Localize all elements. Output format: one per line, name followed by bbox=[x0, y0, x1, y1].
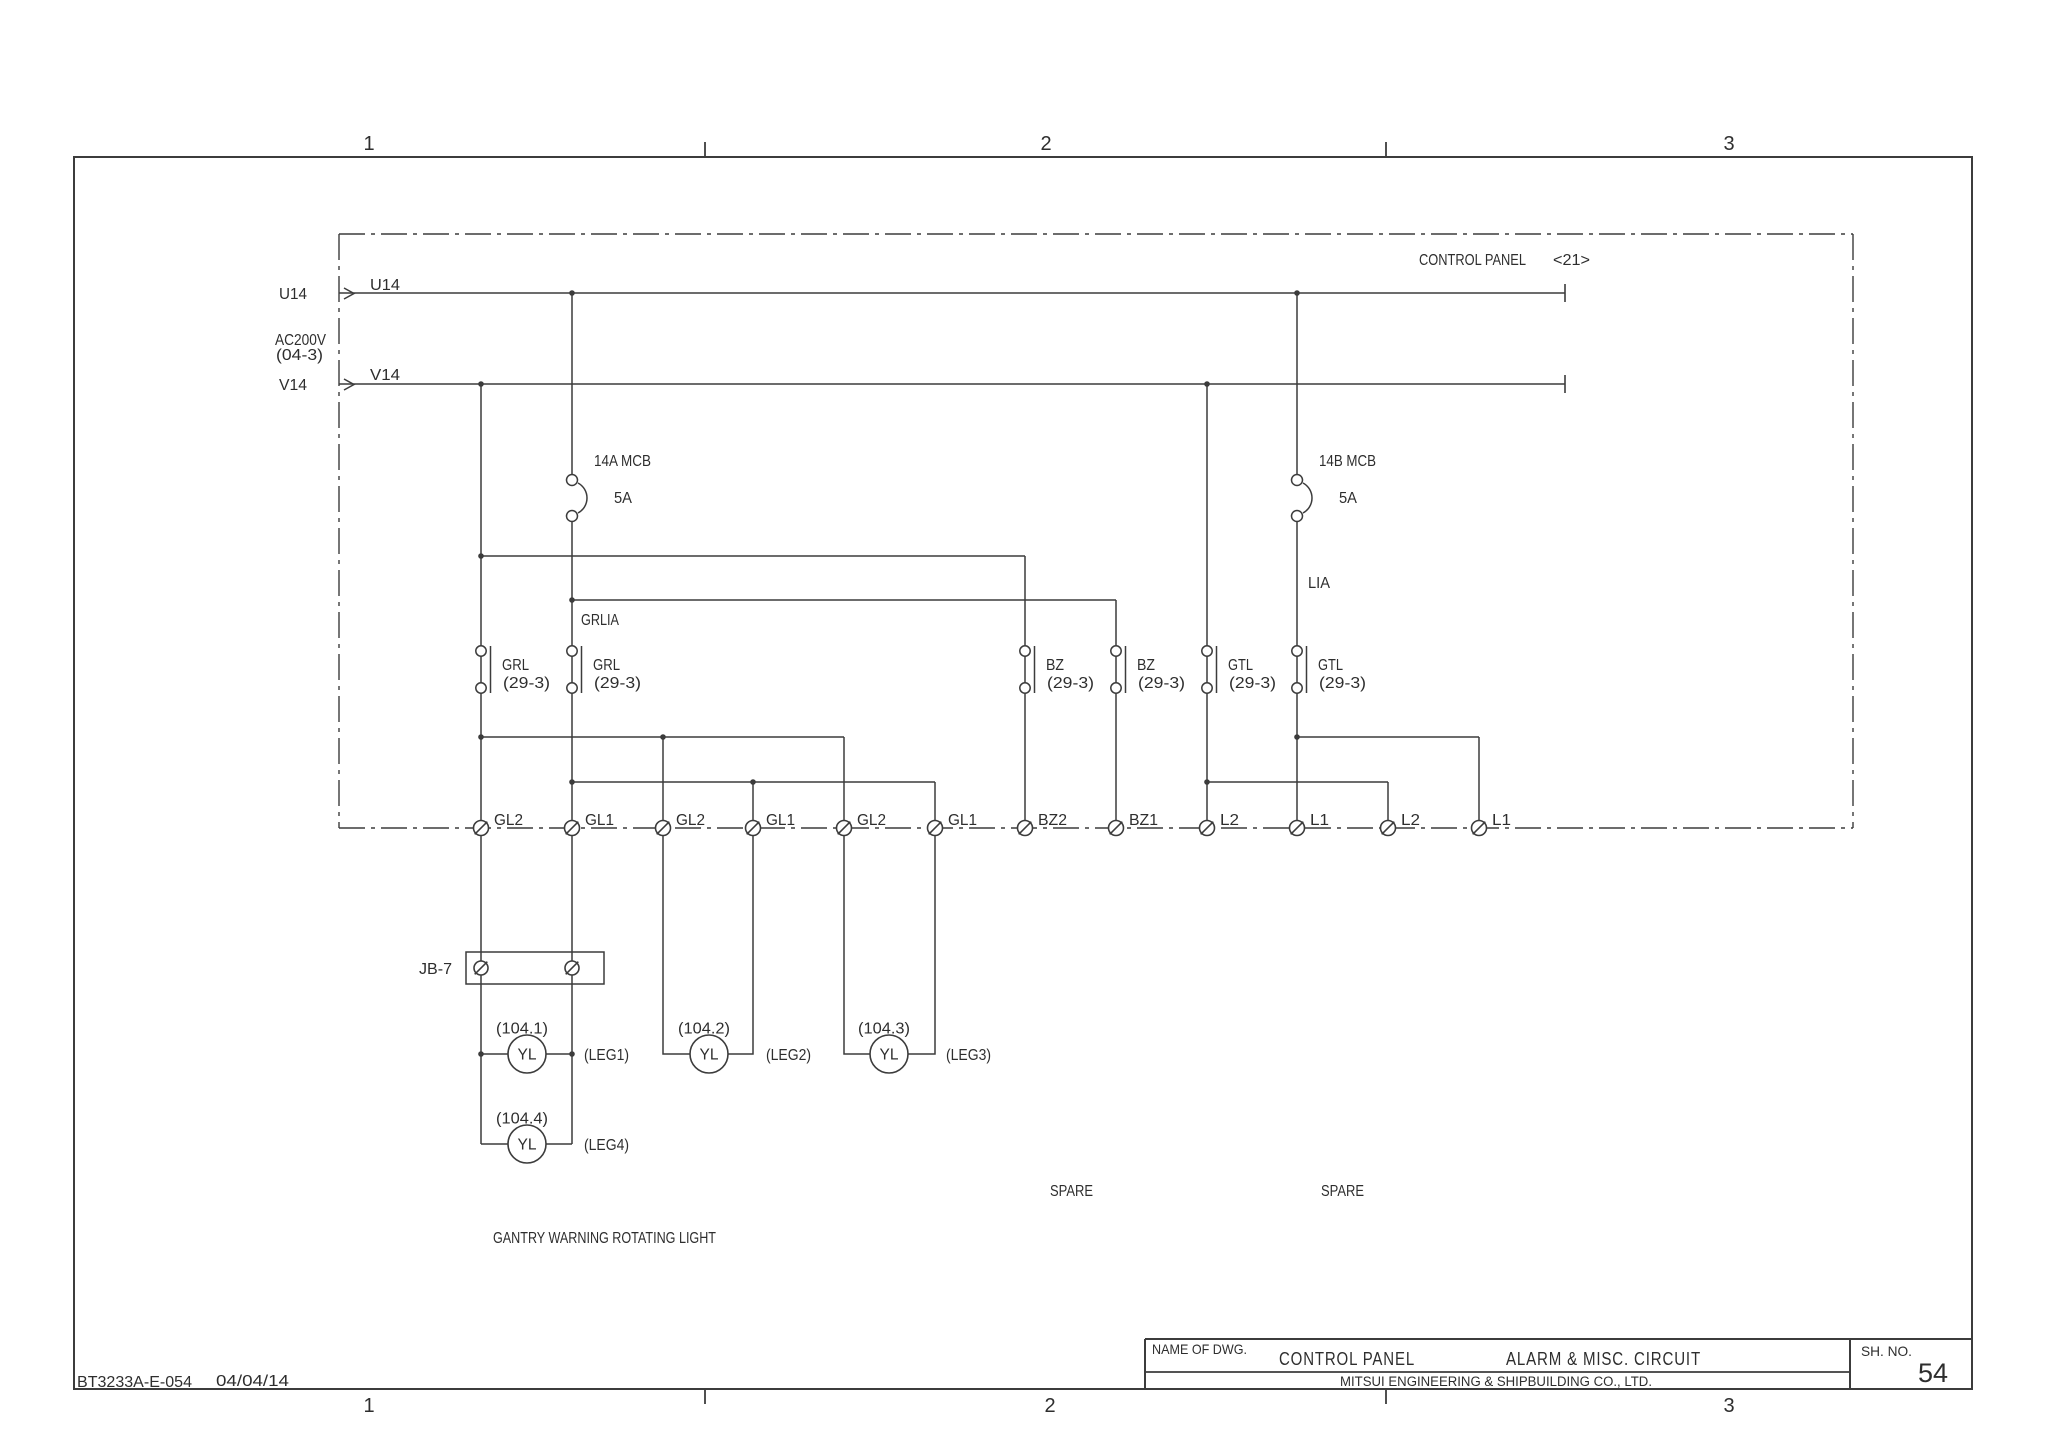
svg-text:BZ: BZ bbox=[1137, 657, 1155, 674]
terminal BZ2 (x 1025) bbox=[1018, 812, 1068, 836]
svg-text:(LEG4): (LEG4) bbox=[584, 1137, 629, 1154]
svg-text:SPARE: SPARE bbox=[1321, 1183, 1364, 1200]
svg-text:(LEG2): (LEG2) bbox=[766, 1047, 811, 1064]
wire GL1 branch drop (col 935) bbox=[934, 782, 936, 828]
svg-text:L1: L1 bbox=[1492, 812, 1511, 829]
wire GL2 terminal to lamp 104.2 (col 663) bbox=[663, 835, 690, 1054]
svg-text:(104.2): (104.2) bbox=[678, 1021, 730, 1038]
svg-text:V14: V14 bbox=[279, 377, 307, 394]
svg-text:(04-3): (04-3) bbox=[276, 347, 323, 364]
control panel enclosure boundary (dash-dot) bbox=[339, 234, 1853, 828]
svg-text:GANTRY WARNING ROTATING LIGHT: GANTRY WARNING ROTATING LIGHT bbox=[493, 1230, 716, 1247]
wire GL1 terminal to lamp 104.2 (col 753) bbox=[728, 835, 753, 1054]
wire GL1 terminal to lamps (col 572) bbox=[571, 835, 573, 1144]
terminal GL2 (x 844) bbox=[837, 812, 887, 836]
wire U14 drop through 14B MCB to GTL contact and L1 terminal (col 1297) bbox=[1296, 293, 1298, 480]
wire GL2 link (y 737) bbox=[481, 736, 844, 738]
circuit breaker 14B MCB 5A bbox=[1292, 453, 1377, 522]
svg-text:CONTROL PANEL: CONTROL PANEL bbox=[1279, 1349, 1415, 1369]
wire V14 drop to GRL contact and GL2 terminal (col 481) bbox=[480, 384, 482, 828]
node U14 junction at 14A MCB bbox=[569, 290, 575, 296]
svg-text:BZ: BZ bbox=[1046, 657, 1064, 674]
svg-text:V14: V14 bbox=[370, 367, 400, 384]
svg-text:GTL: GTL bbox=[1318, 657, 1343, 674]
terminal BZ1 (x 1116) bbox=[1109, 812, 1159, 836]
contact GTL-1 bbox=[1202, 646, 1276, 693]
svg-text:MITSUI ENGINEERING & SHIPBUILD: MITSUI ENGINEERING & SHIPBUILDING CO., L… bbox=[1340, 1374, 1652, 1389]
svg-text:(LEG3): (LEG3) bbox=[946, 1047, 991, 1064]
svg-text:GL2: GL2 bbox=[494, 812, 523, 829]
svg-text:5A: 5A bbox=[1339, 490, 1357, 507]
net label AC200V (04-3) feed bbox=[275, 332, 326, 364]
svg-text:14B MCB: 14B MCB bbox=[1319, 453, 1376, 470]
svg-text:YL: YL bbox=[518, 1047, 537, 1064]
svg-text:SPARE: SPARE bbox=[1050, 1183, 1093, 1200]
svg-text:SH. NO.: SH. NO. bbox=[1861, 1343, 1912, 1359]
terminal L2 (x 1207) bbox=[1200, 812, 1240, 836]
svg-text:L2: L2 bbox=[1401, 812, 1420, 829]
svg-text:2: 2 bbox=[1044, 1395, 1055, 1417]
terminal L2 (x 1388) bbox=[1381, 812, 1421, 836]
wire GL2 terminal to lamps (col 481) bbox=[480, 835, 482, 1144]
svg-text:BZ2: BZ2 bbox=[1038, 812, 1067, 829]
svg-text:<21>: <21> bbox=[1553, 252, 1590, 269]
junction box JB-7 bbox=[419, 952, 604, 984]
wire L1 link (y 737) bbox=[1297, 736, 1479, 738]
svg-text:3: 3 bbox=[1723, 1395, 1734, 1417]
terminal L1 (x 1297) bbox=[1290, 812, 1330, 836]
wire GL1 branch drop (col 753) bbox=[752, 782, 754, 828]
contact GTL-2 bbox=[1292, 646, 1366, 693]
lamp YL (104.4) (LEG4) bbox=[496, 1111, 629, 1164]
wire V14 branch to BZ contact (y 556) bbox=[481, 555, 1025, 557]
svg-text:CONTROL PANEL: CONTROL PANEL bbox=[1419, 252, 1526, 269]
svg-text:GL1: GL1 bbox=[766, 812, 795, 829]
drawing number and date bbox=[77, 1373, 289, 1391]
circuit breaker 14A MCB 5A bbox=[567, 453, 652, 522]
svg-text:GTL: GTL bbox=[1228, 657, 1253, 674]
svg-text:(29-3): (29-3) bbox=[594, 675, 641, 692]
svg-text:5A: 5A bbox=[614, 490, 632, 507]
node V14 junction col 1207 bbox=[1204, 381, 1210, 387]
wire GL1 link (y 782) bbox=[572, 781, 935, 783]
terminal GL2 (x 663) bbox=[656, 812, 706, 836]
wire L2 link (y 782) bbox=[1207, 781, 1388, 783]
svg-text:JB-7: JB-7 bbox=[419, 961, 452, 978]
svg-text:YL: YL bbox=[518, 1137, 537, 1154]
svg-text:GL1: GL1 bbox=[948, 812, 977, 829]
wire GRLIA net from 14A MCB to BZ contact (y 600) bbox=[572, 599, 1116, 601]
node U14 junction at 14B MCB bbox=[1294, 290, 1300, 296]
lamp YL (104.2) (LEG2) bbox=[678, 1021, 811, 1074]
wire L2 branch drop (col 1388) bbox=[1387, 782, 1389, 828]
svg-text:(104.4): (104.4) bbox=[496, 1111, 548, 1128]
wire V14 bus bbox=[279, 367, 1565, 394]
contact BZ-1 bbox=[1020, 646, 1094, 693]
lamp YL (104.3) (LEG3) bbox=[858, 1021, 991, 1074]
wire U14 drop through 14A MCB to GRL contact and GL1 terminal (col 572) bbox=[571, 293, 573, 480]
svg-text:14A MCB: 14A MCB bbox=[594, 453, 651, 470]
svg-text:GL2: GL2 bbox=[857, 812, 886, 829]
svg-text:GRLIA: GRLIA bbox=[581, 612, 619, 629]
wire U14 bus bbox=[279, 277, 1565, 303]
svg-text:U14: U14 bbox=[279, 286, 307, 303]
contact BZ-2 bbox=[1111, 646, 1185, 693]
svg-text:(104.1): (104.1) bbox=[496, 1021, 548, 1038]
wire V14 drop to GTL contact and L2 terminal (col 1207) bbox=[1206, 384, 1208, 828]
svg-text:(29-3): (29-3) bbox=[1047, 675, 1094, 692]
wire GL2 branch drop (col 663) bbox=[662, 737, 664, 828]
svg-text:BZ1: BZ1 bbox=[1129, 812, 1158, 829]
svg-text:U14: U14 bbox=[370, 277, 400, 294]
wire GL2 terminal to lamp 104.3 (col 844) bbox=[844, 835, 871, 1054]
svg-text:GL2: GL2 bbox=[676, 812, 705, 829]
svg-text:04/04/14: 04/04/14 bbox=[216, 1373, 289, 1390]
node V14 junction col 481 bbox=[478, 381, 484, 387]
wire lamp 104.1 leads bbox=[481, 1053, 508, 1055]
svg-text:(29-3): (29-3) bbox=[503, 675, 550, 692]
svg-text:L1: L1 bbox=[1310, 812, 1329, 829]
svg-text:(29-3): (29-3) bbox=[1319, 675, 1366, 692]
svg-text:1: 1 bbox=[363, 133, 374, 155]
svg-text:(29-3): (29-3) bbox=[1229, 675, 1276, 692]
svg-text:3: 3 bbox=[1723, 133, 1734, 155]
terminal GL2 (x 481) bbox=[474, 812, 524, 836]
svg-text:(104.3): (104.3) bbox=[858, 1021, 910, 1038]
svg-text:54: 54 bbox=[1918, 1358, 1948, 1388]
lamp YL (104.1) (LEG1) bbox=[496, 1021, 629, 1074]
contact GRL-2 bbox=[567, 646, 641, 693]
svg-text:GRL: GRL bbox=[593, 657, 620, 674]
svg-text:(29-3): (29-3) bbox=[1138, 675, 1185, 692]
title block bbox=[1145, 1339, 1972, 1389]
svg-text:GRL: GRL bbox=[502, 657, 529, 674]
terminal GL1 (x 572) bbox=[565, 812, 615, 836]
svg-text:GL1: GL1 bbox=[585, 812, 614, 829]
wire drop to BZ contact and BZ1 terminal (col 1116) bbox=[1115, 600, 1117, 828]
svg-text:YL: YL bbox=[880, 1047, 899, 1064]
contact GRL-1 bbox=[476, 646, 550, 693]
wire drop to BZ contact and BZ2 terminal (col 1025) bbox=[1024, 556, 1026, 828]
wire lamp 104.4 leads bbox=[481, 1143, 508, 1145]
terminal L1 (x 1479) bbox=[1472, 812, 1512, 836]
svg-text:LIA: LIA bbox=[1308, 575, 1330, 592]
svg-text:L2: L2 bbox=[1220, 812, 1239, 829]
terminal GL1 (x 935) bbox=[928, 812, 978, 836]
wire L1 branch drop (col 1479) bbox=[1478, 737, 1480, 828]
wire GL1 terminal to lamp 104.3 (col 935) bbox=[908, 835, 935, 1054]
svg-text:BT3233A-E-054: BT3233A-E-054 bbox=[77, 1374, 192, 1391]
svg-text:(LEG1): (LEG1) bbox=[584, 1047, 629, 1064]
svg-text:2: 2 bbox=[1040, 133, 1051, 155]
terminal GL1 (x 753) bbox=[746, 812, 796, 836]
svg-text:1: 1 bbox=[363, 1395, 374, 1417]
svg-text:NAME OF DWG.: NAME OF DWG. bbox=[1152, 1341, 1247, 1357]
svg-text:YL: YL bbox=[700, 1047, 719, 1064]
wire GL2 branch drop (col 844) bbox=[843, 737, 845, 828]
svg-text:ALARM & MISC. CIRCUIT: ALARM & MISC. CIRCUIT bbox=[1506, 1349, 1701, 1369]
